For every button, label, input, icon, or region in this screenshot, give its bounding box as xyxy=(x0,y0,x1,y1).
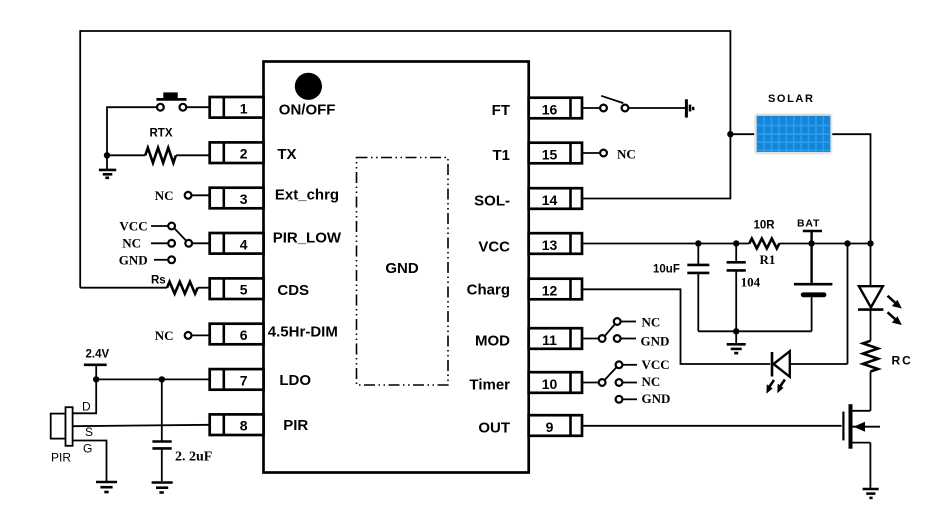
svg-text:VCC: VCC xyxy=(119,219,147,234)
svg-text:R1: R1 xyxy=(760,252,776,267)
svg-text:GND: GND xyxy=(119,253,148,268)
svg-text:PIR_LOW: PIR_LOW xyxy=(273,230,342,247)
ground G3 xyxy=(96,482,117,492)
node junction solar left xyxy=(727,131,733,137)
capacitor C1 2.2uF xyxy=(152,379,212,481)
wire PIR S lead xyxy=(73,425,210,426)
NC terminal pin3 xyxy=(155,188,210,203)
node junction LED branch xyxy=(867,240,873,246)
pin 2 box xyxy=(210,142,264,163)
battery BAT xyxy=(794,218,833,332)
node junction battery xyxy=(808,240,814,246)
pin 14 box xyxy=(529,188,582,209)
wire Charg to LED D2 xyxy=(582,289,770,364)
LED D2 xyxy=(772,351,848,377)
svg-text:8: 8 xyxy=(240,418,248,434)
svg-text:10: 10 xyxy=(542,376,558,392)
node junction D2 branch xyxy=(844,240,850,246)
pin 7 box xyxy=(210,369,264,390)
node junction 2.4V xyxy=(93,376,99,382)
svg-text:TX: TX xyxy=(277,146,296,163)
selector switch Timer pin10 xyxy=(582,357,670,406)
MOSFET Q1 xyxy=(843,404,880,449)
pin 12 box xyxy=(529,279,582,300)
resistor R1 10R xyxy=(749,220,870,267)
wire Rs row xyxy=(80,287,167,289)
svg-text:GND: GND xyxy=(641,333,670,348)
capacitor 10uF xyxy=(653,244,709,332)
svg-text:2. 2uF: 2. 2uF xyxy=(175,449,212,464)
svg-text:4: 4 xyxy=(240,236,248,252)
svg-text:CDS: CDS xyxy=(277,282,309,299)
wire bottom rail xyxy=(698,330,811,332)
wire solar right xyxy=(832,134,870,243)
svg-text:2.4V: 2.4V xyxy=(86,349,110,361)
svg-text:D: D xyxy=(82,400,91,414)
wire VCC row xyxy=(582,243,749,245)
resistor RC xyxy=(863,341,913,411)
svg-text:ON/OFF: ON/OFF xyxy=(279,102,336,119)
ground FT (rod style) xyxy=(686,99,693,117)
pin 16 box xyxy=(529,98,582,119)
pin 3 box xyxy=(210,188,264,209)
svg-text:5: 5 xyxy=(240,282,248,298)
svg-text:VCC: VCC xyxy=(478,238,510,255)
pin 5 box xyxy=(210,278,264,299)
svg-text:GND: GND xyxy=(385,260,419,277)
svg-text:OUT: OUT xyxy=(478,420,510,437)
wire LDO row xyxy=(96,378,210,380)
wire D2 branch vertical xyxy=(847,244,849,365)
wire PIR G lead xyxy=(73,441,107,482)
svg-text:Timer: Timer xyxy=(469,377,510,394)
svg-text:7: 7 xyxy=(240,372,248,388)
svg-text:BAT: BAT xyxy=(797,218,820,230)
svg-text:NC: NC xyxy=(155,188,174,203)
svg-text:MOD: MOD xyxy=(475,333,510,350)
svg-text:NC: NC xyxy=(642,315,661,330)
svg-text:11: 11 xyxy=(542,332,557,348)
svg-text:13: 13 xyxy=(542,237,558,253)
svg-text:16: 16 xyxy=(542,102,558,118)
svg-text:2: 2 xyxy=(240,146,248,162)
svg-text:RTX: RTX xyxy=(150,128,173,140)
wire PIR D lead xyxy=(73,379,97,413)
LED D1 xyxy=(858,244,883,341)
switch FT pin16 xyxy=(582,96,685,112)
ground G1 xyxy=(99,170,116,178)
node junction 104 xyxy=(733,240,739,246)
svg-text:S: S xyxy=(85,425,93,439)
push button S1 xyxy=(156,92,186,110)
node junction cap C1 xyxy=(159,376,165,382)
svg-text:14: 14 xyxy=(542,192,558,208)
GND dashed box xyxy=(357,158,449,386)
IC body U1 xyxy=(264,62,529,473)
capacitor 104 xyxy=(727,244,761,332)
pin 13 box xyxy=(529,233,582,254)
wire pin1 to push button xyxy=(186,106,209,108)
svg-text:6: 6 xyxy=(240,327,248,343)
wire push button to ground rail xyxy=(107,107,157,155)
ground G4 xyxy=(727,344,746,353)
pin 11 box xyxy=(529,328,582,349)
supply 2.4V xyxy=(84,349,110,380)
NC terminal pin15 xyxy=(582,147,636,162)
wire OUT to gate xyxy=(582,425,842,427)
resistor Rs xyxy=(151,275,210,294)
ON/OFF indicator dot xyxy=(295,73,322,100)
svg-text:FT: FT xyxy=(492,102,510,119)
svg-text:SOLAR: SOLAR xyxy=(768,93,815,105)
svg-text:T1: T1 xyxy=(492,147,510,164)
svg-text:12: 12 xyxy=(542,283,558,299)
svg-text:NC: NC xyxy=(122,236,141,251)
resistor RTX xyxy=(107,128,210,163)
pin 10 box xyxy=(529,372,582,393)
solar panel xyxy=(754,93,832,155)
selector switch MOD pin11 xyxy=(582,315,669,349)
svg-text:10R: 10R xyxy=(754,220,776,232)
PIR sensor body xyxy=(51,400,93,465)
svg-text:NC: NC xyxy=(155,328,174,343)
svg-text:NC: NC xyxy=(642,374,661,389)
svg-text:Charg: Charg xyxy=(467,282,510,299)
svg-text:10uF: 10uF xyxy=(653,264,680,276)
pin 1 box xyxy=(210,97,264,118)
node junction rail ground xyxy=(733,328,739,334)
svg-text:G: G xyxy=(83,442,92,456)
ground G5 xyxy=(863,489,879,498)
node junction 10uF xyxy=(695,240,701,246)
svg-text:3: 3 xyxy=(240,191,248,207)
NC terminal pin6 xyxy=(155,328,210,343)
wire junction down xyxy=(106,155,108,169)
svg-text:NC: NC xyxy=(617,147,636,162)
svg-text:9: 9 xyxy=(546,419,554,435)
pin 4 box xyxy=(210,233,264,254)
svg-text:1: 1 xyxy=(240,100,248,116)
node junction pin2/ground xyxy=(104,152,110,158)
svg-text:GND: GND xyxy=(642,391,671,406)
svg-text:RC: RC xyxy=(892,354,913,368)
pin 6 box xyxy=(210,324,264,345)
svg-text:Ext_chrg: Ext_chrg xyxy=(275,186,339,203)
pin 9 box xyxy=(529,415,582,436)
svg-text:104: 104 xyxy=(741,275,761,290)
svg-text:15: 15 xyxy=(542,147,558,163)
svg-text:4.5Hr-DIM: 4.5Hr-DIM xyxy=(268,323,338,340)
ground G2 xyxy=(152,483,173,493)
svg-text:LDO: LDO xyxy=(279,372,311,389)
pin 8 box xyxy=(210,414,264,435)
svg-text:PIR: PIR xyxy=(283,417,308,434)
wire to solar panel xyxy=(730,133,754,135)
wire rail to ground xyxy=(735,331,737,343)
wire source to ground xyxy=(869,443,871,488)
svg-text:PIR: PIR xyxy=(51,451,71,465)
LED D1 arrows xyxy=(888,296,902,325)
svg-text:Rs: Rs xyxy=(151,275,166,287)
svg-text:SOL-: SOL- xyxy=(474,193,510,210)
selector switch pin4 xyxy=(119,219,210,268)
svg-text:VCC: VCC xyxy=(642,357,670,372)
wire outer loop CDS to SOL- xyxy=(80,31,730,288)
pin 15 box xyxy=(529,143,582,164)
LED D2 arrows xyxy=(766,380,785,394)
